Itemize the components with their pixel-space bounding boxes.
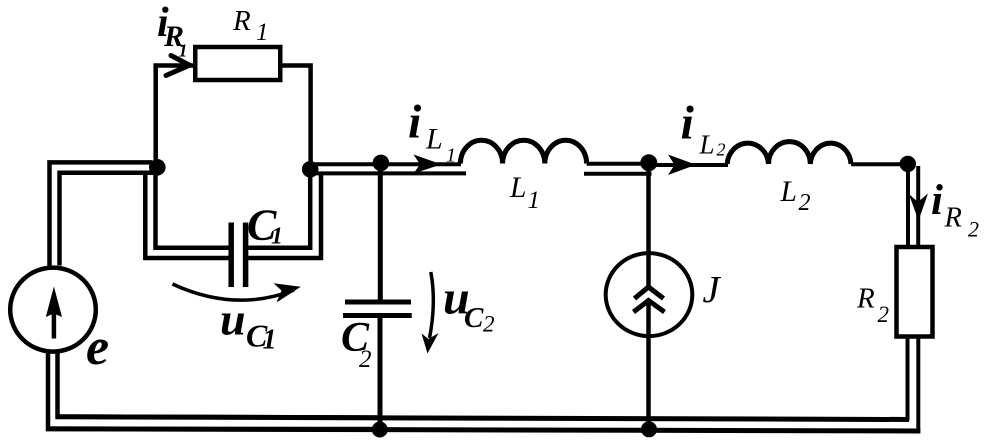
- wire node B to L1 (lower): [311, 171, 466, 175]
- wire R2 to bus (left): [906, 338, 910, 421]
- wire C1 to node B (lower/outer): [248, 173, 322, 259]
- voltage source e: [10, 268, 96, 352]
- label L1: [509, 172, 540, 214]
- svg-text:C: C: [464, 302, 484, 334]
- svg-text:u: u: [220, 294, 246, 345]
- bus wire bottom (lower line): [46, 429, 920, 431]
- node C (C2 tap): [373, 155, 390, 172]
- wire R2 to bus (right): [916, 338, 920, 431]
- wire node C down to C2: [378, 164, 383, 301]
- svg-text:J: J: [703, 269, 722, 311]
- current source J: [606, 253, 693, 336]
- wire source bottom to bus (outer): [48, 353, 379, 429]
- svg-text:i: i: [408, 96, 422, 149]
- svg-text:i: i: [931, 177, 943, 224]
- svg-text:1: 1: [256, 19, 269, 46]
- resistor R1: [195, 47, 280, 80]
- node C2-bus: [372, 422, 388, 438]
- svg-text:L: L: [780, 176, 797, 208]
- wire node B to L1 (upper): [310, 162, 461, 166]
- wire C2 to bus: [378, 316, 383, 430]
- label iL2: [681, 97, 726, 160]
- arrow iR1: [166, 56, 190, 76]
- node A (left of R1/C1): [149, 159, 166, 176]
- label C1: [247, 201, 283, 250]
- svg-text:1: 1: [179, 41, 188, 61]
- wire node E down to R2 (left): [906, 165, 910, 248]
- node D (J tap): [640, 154, 657, 171]
- label iL1: [408, 96, 456, 167]
- resistor R2: [897, 247, 933, 337]
- wire node D to L2: [652, 163, 728, 167]
- node J-bus: [641, 421, 657, 437]
- svg-text:2: 2: [717, 140, 726, 160]
- arrow iL1: [414, 155, 442, 174]
- bus wire bottom (upper line): [56, 417, 910, 420]
- svg-text:R: R: [856, 283, 875, 315]
- inductor L1: [460, 140, 586, 163]
- capacitor C1: [231, 223, 245, 288]
- wire L1 to node D (lower): [584, 172, 652, 176]
- svg-text:2: 2: [799, 190, 811, 216]
- arrow uC2: [430, 272, 434, 338]
- wire J to bus: [646, 301, 651, 429]
- wire C1 to node B (upper): [248, 167, 311, 248]
- wire node A up to R1: [156, 66, 193, 164]
- wire node A down to C1 (outer): [145, 171, 229, 259]
- svg-text:L: L: [699, 130, 715, 160]
- label L2: [780, 176, 811, 216]
- svg-text:L: L: [509, 172, 526, 204]
- arrow uC1 (arc): [173, 284, 295, 300]
- wire source to top-left corner (inner): [60, 173, 154, 266]
- label R1: [232, 5, 269, 46]
- arrow iL2: [668, 155, 696, 176]
- wire node D down to J: [646, 165, 651, 288]
- capacitor C2: [343, 302, 412, 316]
- wire node A down to C1 (inner): [156, 167, 230, 248]
- arrow iR2: [909, 194, 928, 221]
- label C2: [341, 315, 372, 373]
- wire source to top-left corner (outer): [50, 162, 153, 266]
- wire L2 to node E: [851, 162, 906, 166]
- wire L1 to node D (upper): [587, 162, 650, 166]
- svg-text:1: 1: [528, 187, 541, 214]
- label uC1: [220, 294, 277, 356]
- wire source bottom to bus (inner): [58, 353, 380, 418]
- svg-text:R: R: [232, 5, 251, 37]
- wire R1 to node B: [282, 66, 311, 164]
- svg-text:2: 2: [878, 302, 890, 327]
- svg-text:i: i: [681, 97, 695, 150]
- svg-text:1: 1: [446, 145, 456, 167]
- svg-text:R: R: [944, 203, 962, 234]
- svg-text:2: 2: [483, 312, 495, 337]
- svg-text:2: 2: [968, 217, 979, 242]
- node E (top right): [900, 156, 916, 172]
- label R2: [856, 283, 889, 328]
- svg-text:L: L: [425, 123, 443, 156]
- svg-text:e: e: [86, 319, 109, 376]
- label iR1: [157, 0, 188, 61]
- node B (right of R1/C1): [302, 161, 319, 178]
- label iR2: [931, 177, 979, 242]
- svg-text:1: 1: [263, 325, 277, 356]
- wire node E down to R2 (right): [916, 166, 920, 248]
- inductor L2: [727, 142, 851, 164]
- svg-text:2: 2: [359, 346, 372, 373]
- label uC2: [443, 272, 495, 337]
